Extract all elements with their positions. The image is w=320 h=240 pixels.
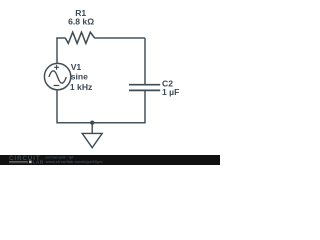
svg-text:www.circuitlab.com/c/pri69ym: www.circuitlab.com/c/pri69ym xyxy=(45,159,104,164)
wire right vertical lower (C2 bottom to ground rail) xyxy=(92,91,145,123)
capacitor C2 xyxy=(129,85,160,91)
wire top horizontal right segment xyxy=(94,37,145,39)
watermark bar xyxy=(0,154,220,165)
wire right vertical upper (R1 to C2 top) xyxy=(144,38,146,85)
svg-text:LAB: LAB xyxy=(33,160,44,165)
svg-text:6.8 kΩ: 6.8 kΩ xyxy=(68,17,94,27)
value 1 µF xyxy=(162,87,179,97)
resistor R1 xyxy=(65,32,94,43)
wire top-left vertical (node from source + to R1) xyxy=(56,38,58,64)
value 6.8 kΩ xyxy=(68,17,94,27)
svg-text:sine: sine xyxy=(71,72,88,82)
svg-text:V1: V1 xyxy=(71,62,82,72)
ground xyxy=(82,123,102,148)
label R1 xyxy=(75,8,86,18)
svg-text:1 µF: 1 µF xyxy=(162,87,179,97)
svg-text:1 kHz: 1 kHz xyxy=(70,82,92,92)
value sine xyxy=(71,72,88,82)
wire left vertical lower (source - to ground rail) xyxy=(57,90,92,123)
value 1 kHz xyxy=(70,82,92,92)
node junction dot (ground node) xyxy=(90,121,94,125)
label V1 xyxy=(71,62,82,72)
wire top horizontal left segment xyxy=(56,37,65,39)
voltage source V1 xyxy=(44,63,70,89)
label C2 xyxy=(162,78,173,88)
